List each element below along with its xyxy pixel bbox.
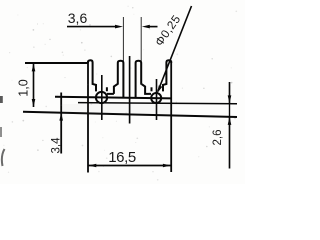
dimension 3,6 : left dim line with right-pointing arrow	[67, 26, 116, 28]
scan smudge left margin upper	[0, 96, 3, 103]
hook circle C2	[151, 93, 161, 103]
base bottom line	[23, 112, 237, 117]
dimension 16,5 : dim line with outward arrows	[88, 164, 171, 168]
tab A (left tall tab), its left edge continues down as 16,5 left extension	[87, 61, 89, 173]
dimension 3,6 : right arrow pointing left with tail	[142, 25, 150, 29]
tab D (right tall tab), right edge continues down as 16,5 right extension	[170, 61, 172, 172]
top extension line at tab-top level	[25, 62, 89, 64]
base band scan shading	[62, 104, 170, 114]
center line of hook C2	[156, 79, 158, 120]
tab B (left middle tab), right edge continues up as 3,6 left extension	[114, 61, 124, 97]
center line of hook C1	[101, 75, 103, 120]
base left edge merged with 3,4 dim line	[60, 93, 62, 154]
svg-text:3,4: 3,4	[51, 137, 63, 154]
svg-text:2,6: 2,6	[212, 130, 224, 146]
connector tab C to hook2	[151, 87, 153, 91]
scan smudge bottom left curl	[2, 149, 5, 166]
hook circle C1	[96, 92, 107, 103]
leader line for hole diameter	[157, 6, 192, 94]
svg-text:16,5: 16,5	[108, 149, 136, 166]
connector hook1 to tab B	[107, 87, 114, 94]
dimension 2,6 : dim lines with arrows toward gap	[228, 82, 232, 169]
tab C (right middle tab), right edge continues up as 3,6 right extension	[136, 61, 151, 97]
scan smudge left margin mid	[0, 127, 2, 137]
paper speckle noise	[3, 6, 237, 181]
part center line	[129, 56, 131, 124]
base top line	[55, 97, 172, 99]
base inner line / 2,6 upper reference	[78, 103, 237, 104]
dimension 3,4 : up arrow on base-edge line	[59, 113, 63, 121]
svg-text:1,0: 1,0	[17, 79, 31, 96]
dimension 1,0 : dim line with arrows	[32, 63, 36, 107]
svg-text:Φ0,25: Φ0,25	[152, 12, 183, 49]
